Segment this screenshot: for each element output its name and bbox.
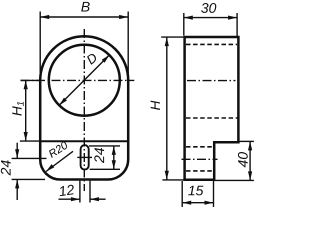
40 dimension line	[249, 141, 251, 180]
hidden line slot top	[186, 146, 214, 148]
label 24l	[1, 160, 11, 175]
label B	[81, 2, 90, 12]
side view outline	[185, 37, 239, 180]
15 dimension extension lines	[181, 181, 183, 207]
15 dimension line	[182, 202, 213, 204]
30 dimension line	[184, 17, 237, 19]
30 dimension extension lines	[183, 13, 185, 36]
hole circle D	[49, 45, 120, 116]
vertical center line	[83, 29, 85, 191]
diameter D arrow	[59, 55, 109, 106]
label D	[86, 52, 98, 64]
H1 bottom extension line	[20, 140, 40, 142]
label H	[151, 101, 160, 110]
H dimension extension lines	[161, 36, 187, 38]
label R20	[48, 141, 69, 158]
hidden line hole top	[186, 43, 237, 45]
slot obround	[81, 145, 89, 170]
front view body outline	[40, 36, 128, 179]
slot center tick	[77, 156, 92, 158]
dimension B line	[40, 16, 128, 18]
label 15	[188, 186, 203, 196]
slot 24 dimension extension lines	[89, 145, 120, 147]
label 12	[58, 184, 74, 196]
hidden line slot bottom	[186, 170, 213, 172]
horizontal center line	[21, 79, 135, 81]
left 24 dimension	[12, 157, 47, 159]
H1 top extension solid segment	[21, 79, 42, 81]
R20 leader arrow	[46, 151, 73, 171]
40 dimension extension lines	[238, 140, 254, 142]
base top edge line	[40, 140, 128, 142]
12 dimension line with outside arrows	[59, 198, 80, 200]
side center line hole	[187, 80, 236, 82]
H dimension line	[166, 37, 168, 180]
dimension H1 line	[25, 80, 27, 141]
dimension B extension lines	[39, 12, 41, 80]
label 40	[238, 152, 248, 167]
label 24s	[94, 148, 104, 163]
slot 24 dimension line	[113, 146, 115, 169]
hidden line hole bottom	[186, 117, 238, 119]
label 30	[201, 3, 216, 13]
side slot center line	[182, 158, 218, 160]
label H1	[12, 102, 23, 116]
12 dimension extension lines	[79, 181, 81, 203]
